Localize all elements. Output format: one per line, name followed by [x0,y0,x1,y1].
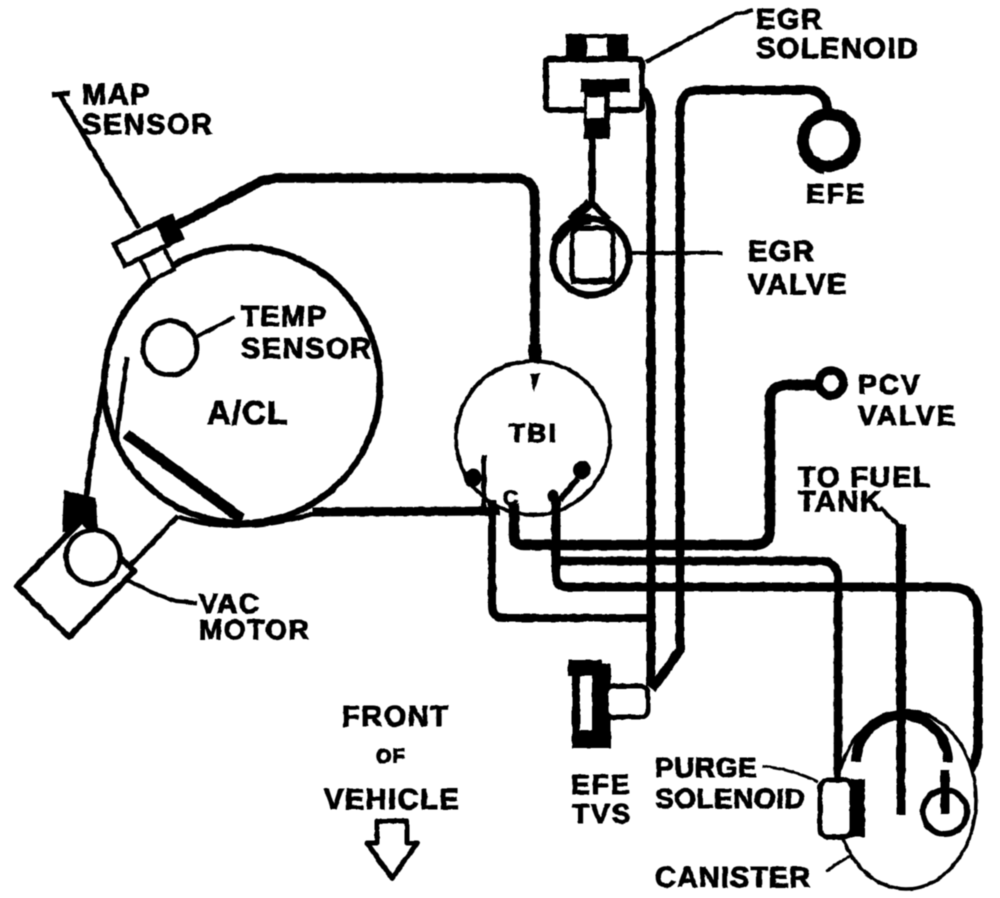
PCV valve ring [819,371,844,396]
hose TBI to purge solenoid [557,561,838,778]
canister dome arc [856,715,948,762]
svg-text:A/CL: A/CL [207,394,288,431]
A/CL snorkel inner edge [116,357,130,469]
TBI left junction blob [464,469,482,487]
svg-text:PCV: PCV [858,369,922,400]
A/CL snorkel outer edge [84,364,107,524]
TBI port blob [547,490,559,502]
front arrow [367,821,417,878]
svg-text:TBI: TBI [509,418,558,448]
svg-text:CANISTER: CANISTER [655,862,811,894]
EGR solenoid inner block [581,79,630,92]
A/CL air cleaner circle [104,247,380,523]
svg-text:TANK: TANK [798,486,882,518]
wire fuel tank hose [896,524,906,815]
svg-text:EGR: EGR [748,236,815,268]
EGR valve inner body [572,228,613,282]
TBI port E stub [560,478,578,500]
svg-text:EFE: EFE [806,178,866,209]
EGR solenoid stem [589,136,596,206]
MAP sensor pointer line [52,93,139,228]
vac motor body [17,520,134,637]
EGR valve pointer line [630,251,722,255]
EFE TVS body cap [568,660,602,676]
MAP sensor body [113,213,195,288]
purge solenoid body [820,780,852,837]
wire EGR solenoid down (vertical hose 1) [641,90,651,686]
canister right port circle [923,790,967,834]
EFE TVS right bar [592,664,611,748]
svg-text:VALVE: VALVE [858,400,957,431]
svg-text:VEHICLE: VEHICLE [324,784,460,816]
purge solenoid pointer curve [762,766,818,782]
canister center pipe [897,700,906,815]
wire EFE hose (vertical hose 2) [652,90,828,689]
svg-text:VALVE: VALVE [748,269,848,301]
TO FUEL TANK pointer [880,507,900,528]
wire MAP sensor to TBI hose [529,344,542,362]
EGR solenoid nut [566,34,628,61]
EFE ring [803,114,855,166]
svg-text:SENSOR: SENSOR [241,333,372,365]
EFE ring outer arc [800,152,824,173]
EGR valve circle [553,219,629,295]
EGR solenoid body [546,59,642,110]
svg-text:EGR: EGR [756,4,823,36]
svg-text:OF: OF [376,746,406,768]
svg-text:TVS: TVS [572,798,632,829]
EGR valve Y arms [571,203,590,220]
A/CL inner thick diagonal [126,434,242,519]
vac motor pointer line [124,578,197,603]
canister body [836,711,976,889]
TBI port E nipple [573,461,591,479]
EFE TVS foot [573,730,611,748]
svg-text:TEMP: TEMP [241,301,328,333]
hose TBI drop to EFE TVS junction [492,500,651,618]
temp sensor pointer line [196,317,235,337]
temp sensor circle [143,321,197,375]
svg-text:SENSOR: SENSOR [82,109,213,141]
svg-text:FRONT: FRONT [342,701,449,733]
svg-text:SOLENOID: SOLENOID [655,783,805,814]
hose TBI port C to PCV valve [514,385,816,545]
snorkel lower edge to vac motor [127,516,178,569]
svg-text:MAP: MAP [82,79,151,111]
svg-text:EFE: EFE [571,769,631,800]
canister left edge bar [851,779,865,837]
TBI unit circle [456,361,610,515]
canister right pipe [941,770,950,814]
EFE TVS arm nipple [606,686,648,717]
TBI left port stub [482,455,487,508]
snorkel junction blob [62,490,98,540]
EGR solenoid pointer line [646,10,753,62]
snorkel under-curve [178,513,315,526]
hose A/CL to TBI [312,511,500,512]
canister pointer line [826,856,850,871]
vac motor diaphragm circle [66,530,120,584]
svg-text:PURGE: PURGE [655,752,757,783]
hose TBI port E to canister [556,498,978,814]
svg-text:SOLENOID: SOLENOID [756,33,919,65]
EGR valve bottom chord [571,278,615,284]
EGR valve thick top-left arc [556,219,591,242]
svg-text:MOTOR: MOTOR [199,614,310,645]
EFE TVS left wall [572,660,580,748]
TBI port F tick [530,373,540,392]
